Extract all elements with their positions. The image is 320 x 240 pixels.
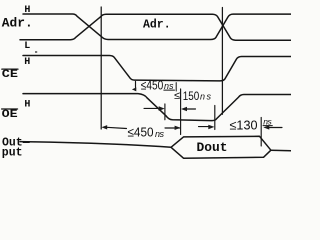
node OE-rise tick (214, 106, 216, 130)
svg-text:H: H (24, 57, 30, 68)
svg-text:ns: ns (200, 92, 212, 102)
svg-text:put: put (2, 146, 23, 159)
node t0 reference line (100, 7, 102, 129)
dim 450ns (address to output) left arrowhead (101, 125, 107, 129)
wire Adr old-L / rise / box-top / fall / new-L (20, 14, 291, 40)
svg-text:≤: ≤ (174, 90, 180, 102)
wire output right line (271, 149, 291, 152)
wire CE waveform (23, 56, 291, 81)
wire Dout bus polygon (171, 136, 271, 158)
svg-text:≤450: ≤450 (128, 124, 154, 139)
svg-text:ns: ns (155, 129, 165, 139)
speck (scan noise) (35, 51, 37, 53)
dim CE access elbow tick (135, 82, 137, 88)
node data-valid tick B (180, 89, 182, 135)
wire ns underline (263, 125, 272, 127)
node data-valid tick A (164, 104, 166, 120)
svg-text:H: H (24, 99, 30, 110)
wire Adr old-H / fall / box-bottom / rise / new-H (23, 14, 291, 40)
svg-text:CE: CE (2, 69, 19, 81)
svg-text:ns: ns (263, 116, 272, 126)
wire OE waveform (23, 94, 291, 121)
wire output hiZ line (20, 142, 171, 148)
dim 130ns left outside arrow (199, 126, 209, 128)
dim 130ns right outside arrow (263, 125, 269, 129)
wire CE overline (2, 68, 18, 70)
node t1 reference line (221, 8, 223, 115)
svg-text:≤130: ≤130 (230, 117, 258, 132)
dim 150ns right arrow (181, 107, 187, 112)
dim 450ns right arrowhead (175, 126, 181, 130)
dim 150ns left arrow (144, 107, 160, 109)
svg-text:Adr.: Adr. (143, 18, 171, 31)
node hiZ tick (260, 117, 262, 146)
dim 450ns left line (107, 127, 127, 128)
svg-text:≤450: ≤450 (141, 77, 164, 92)
svg-text:ns: ns (164, 81, 174, 91)
svg-text:OE: OE (2, 109, 19, 121)
dim CE access arrowhead (132, 87, 136, 91)
wire OE overline (2, 108, 18, 110)
svg-text:150: 150 (183, 89, 200, 103)
wire ns underline tick (164, 83, 176, 91)
svg-text:Dout: Dout (197, 140, 228, 155)
svg-text:Adr.: Adr. (2, 16, 33, 31)
svg-text:L: L (24, 41, 30, 52)
dim 450ns right line (165, 127, 180, 129)
